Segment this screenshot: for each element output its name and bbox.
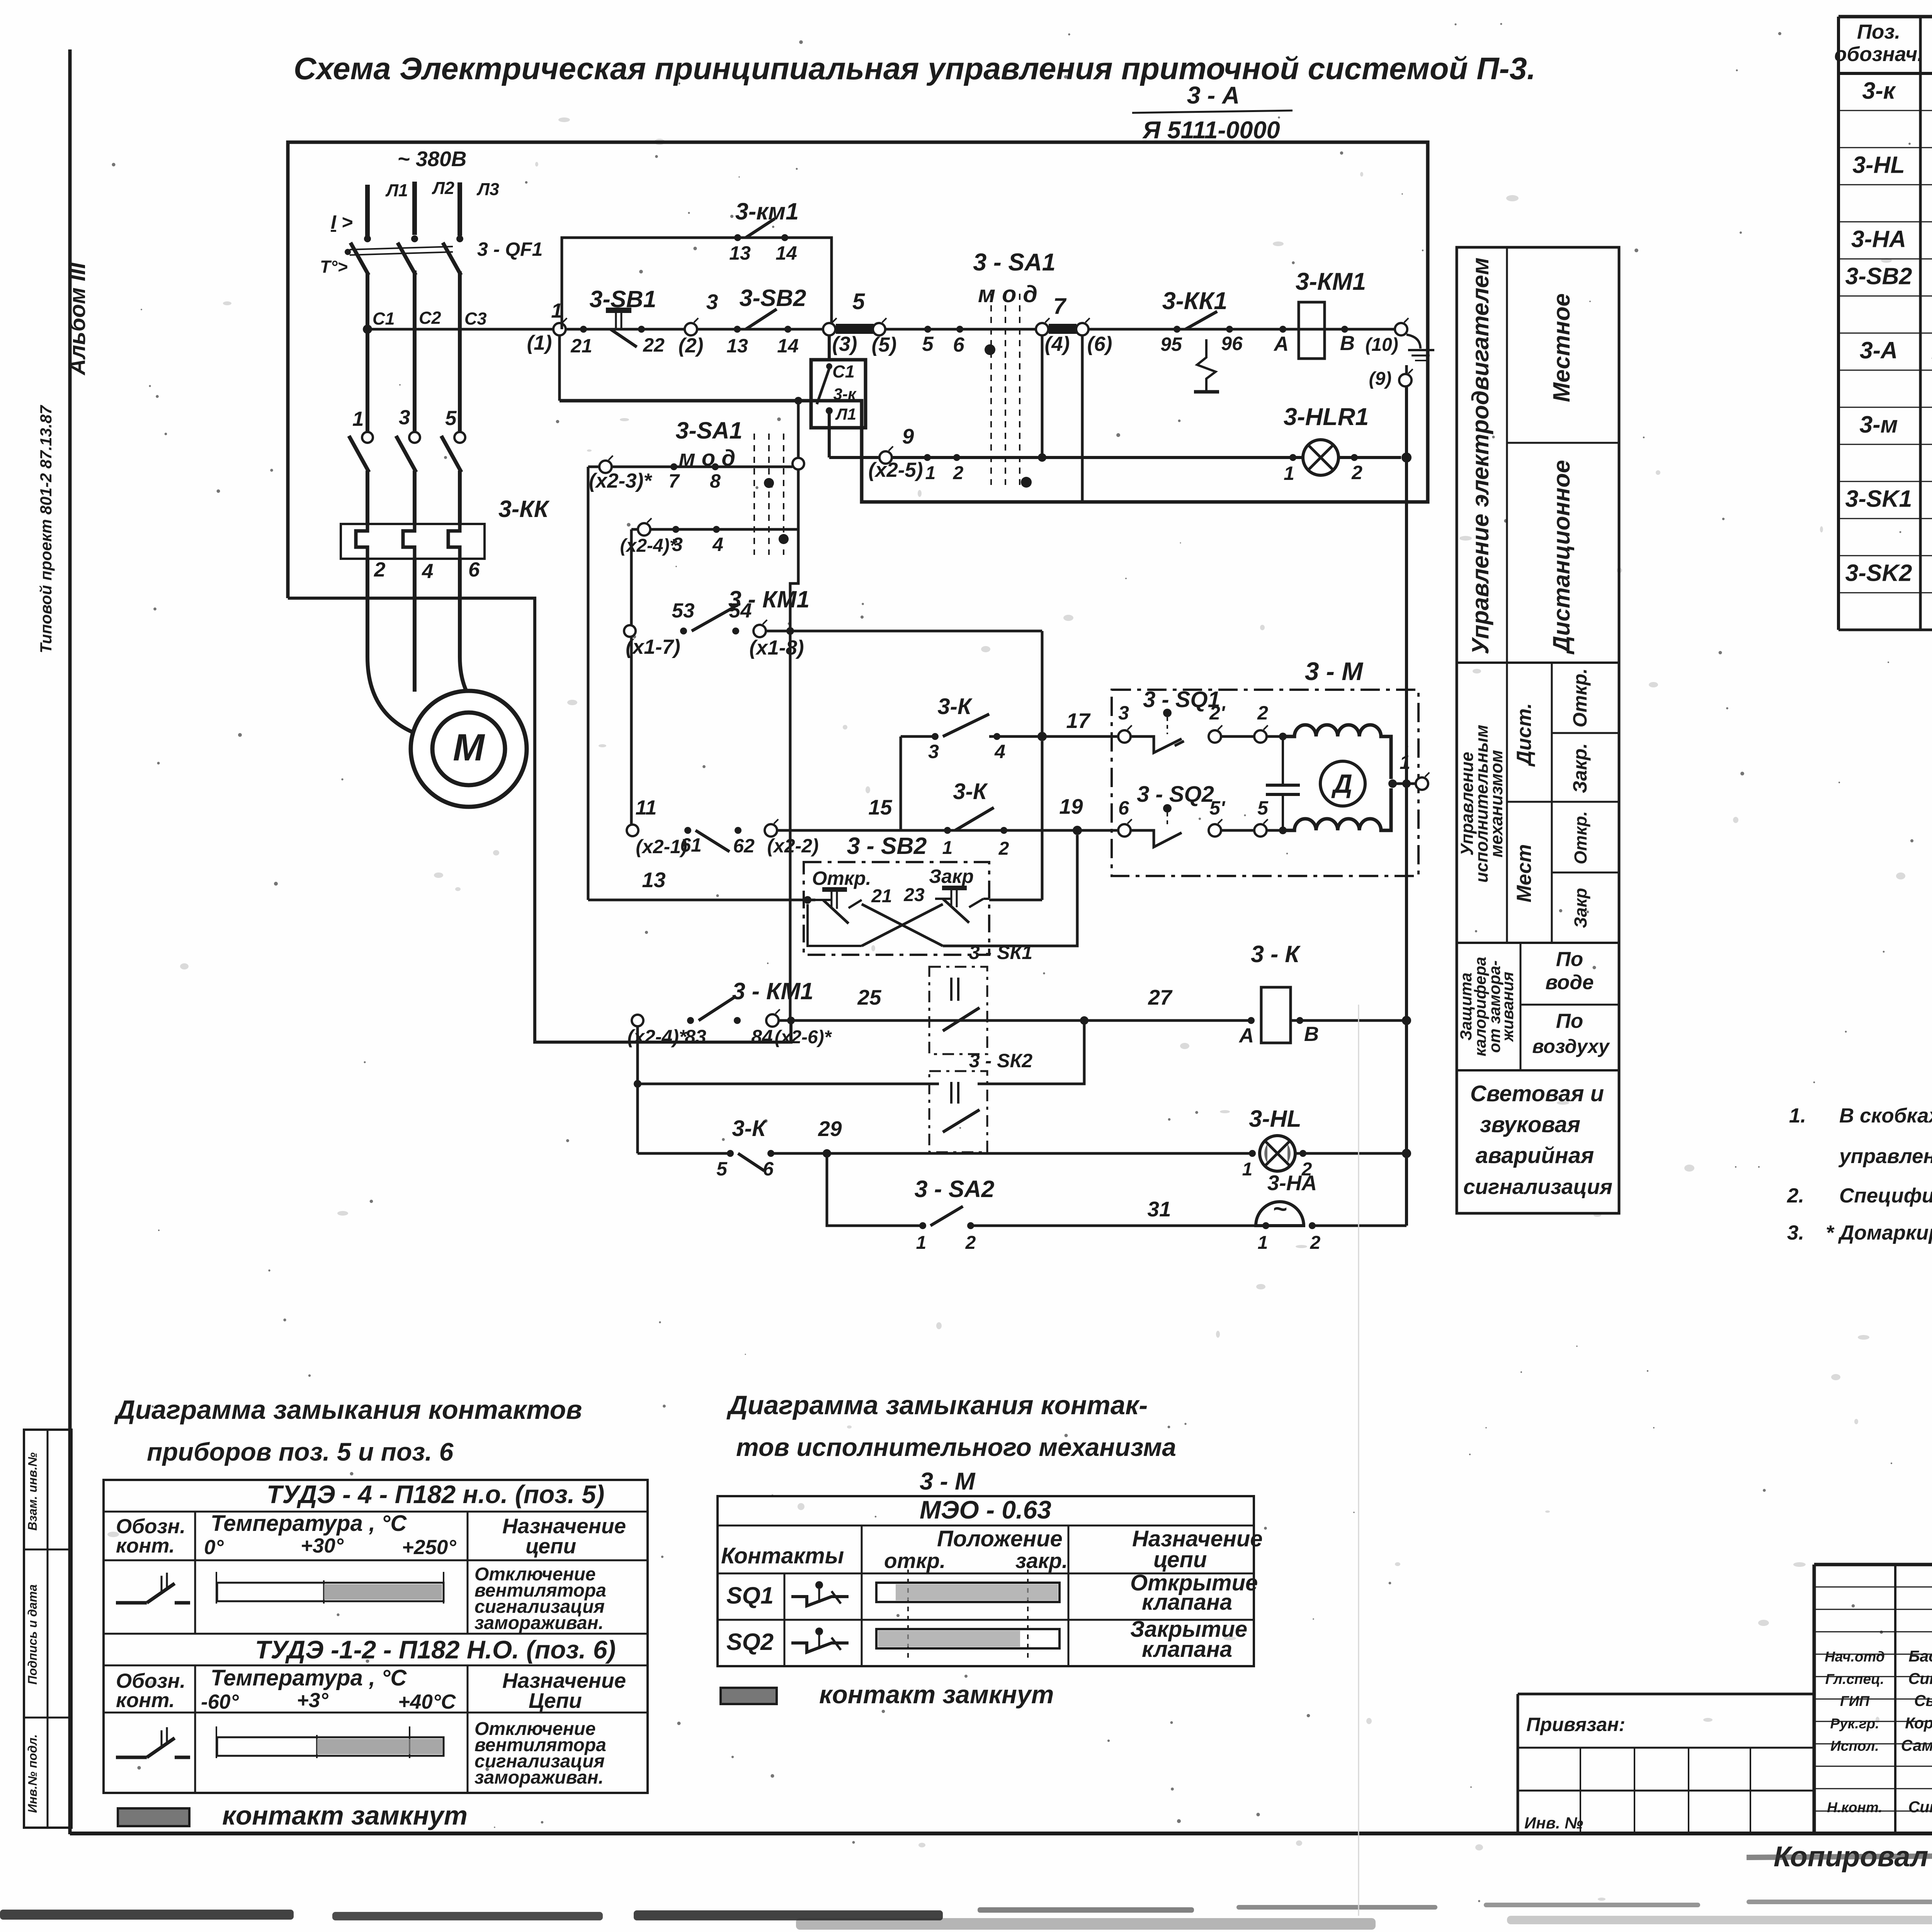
svg-text:3 - М: 3 - М	[1305, 657, 1364, 685]
bottom signal row 29	[638, 1152, 730, 1155]
node (6) terminal	[1076, 323, 1088, 335]
svg-text:Баскаков: Баскаков	[1908, 1647, 1932, 1665]
section2 texts	[1551, 663, 1553, 943]
wires from heaters to motor	[367, 559, 417, 734]
svg-text:5: 5	[922, 333, 934, 355]
svg-text:~: ~	[1273, 1196, 1287, 1223]
svg-text:SQ2: SQ2	[726, 1629, 774, 1655]
svg-text:6: 6	[468, 558, 480, 581]
svg-text:SQ1: SQ1	[726, 1582, 774, 1609]
svg-text:1.: 1.	[1789, 1104, 1806, 1127]
svg-text:сигнализация: сигнализация	[1463, 1175, 1612, 1199]
svg-text:Инв.№ подл.: Инв.№ подл.	[26, 1734, 39, 1813]
svg-text:Световая и: Световая и	[1470, 1081, 1604, 1106]
svg-text:8: 8	[710, 470, 721, 492]
diagram1 bar chart row2	[216, 1726, 217, 1758]
svg-text:механизмом: механизмом	[1486, 750, 1506, 857]
svg-text:Температура , °С: Температура , °С	[211, 1665, 407, 1690]
svg-text:3 - М: 3 - М	[920, 1468, 976, 1495]
contactor 3-k main contacts	[362, 432, 373, 443]
svg-text:(9): (9)	[1369, 369, 1392, 389]
svg-text:3-SB2: 3-SB2	[740, 285, 806, 311]
svg-text:11: 11	[635, 796, 656, 819]
svg-text:3-HL: 3-HL	[1852, 151, 1905, 178]
svg-text:1: 1	[916, 1233, 927, 1253]
phase stub L2	[412, 182, 417, 235]
junction riser on distribution wire	[794, 397, 802, 405]
svg-text:Н.конт.: Н.конт.	[1827, 1799, 1882, 1815]
svg-text:3-НА: 3-НА	[1851, 226, 1906, 252]
wire from node 3 down into aux contact box	[828, 335, 831, 361]
svg-text:Л1: Л1	[385, 180, 408, 200]
line from left bus to SK2	[636, 1026, 639, 1153]
title block outer top line	[1814, 1563, 1932, 1566]
svg-text:Самсонова: Самсонова	[1901, 1736, 1932, 1754]
svg-text:клапана: клапана	[1142, 1590, 1232, 1615]
bold wire segment between (3) and (5)	[836, 324, 874, 334]
terminal circle at rows merge	[793, 458, 804, 469]
bus from row x2-4 down to contact 11	[630, 529, 633, 830]
node (3) terminal	[823, 323, 835, 335]
sheet bottom frame line	[70, 1832, 1932, 1835]
svg-text:Дистанционное: Дистанционное	[1548, 460, 1575, 655]
wire down to junction 17	[1041, 631, 1044, 736]
svg-text:Откр.: Откр.	[1571, 811, 1590, 864]
svg-text:3-HL: 3-HL	[1249, 1105, 1301, 1132]
svg-text:2.: 2.	[1787, 1184, 1804, 1207]
svg-text:(х2-4)*: (х2-4)*	[620, 536, 678, 556]
svg-text:Л3: Л3	[476, 179, 499, 199]
svg-text:М: М	[453, 726, 485, 769]
svg-text:1: 1	[942, 838, 953, 858]
right ground bus	[1405, 386, 1408, 1226]
svg-text:2: 2	[998, 838, 1009, 859]
svg-text:21: 21	[570, 335, 592, 357]
privyazan block	[1518, 1693, 1814, 1696]
svg-text:4: 4	[422, 560, 433, 583]
svg-text:В: В	[1304, 1023, 1319, 1046]
wire line 15	[777, 829, 1124, 832]
svg-text:1: 1	[1242, 1159, 1253, 1180]
svg-text:Спецификация составлена для с: Спецификация составлена для системы П-3	[1839, 1184, 1932, 1207]
junction line27 right bus	[1402, 1016, 1411, 1025]
svg-text:(2): (2)	[679, 334, 704, 357]
junction pin1 with right bus	[1402, 779, 1411, 788]
svg-text:3 - SК2: 3 - SК2	[969, 1050, 1032, 1071]
svg-text:3: 3	[706, 290, 718, 314]
svg-text:13: 13	[726, 335, 748, 357]
svg-text:Температура , °С: Температура , °С	[211, 1511, 407, 1536]
svg-text:3 - QF1: 3 - QF1	[477, 238, 543, 260]
svg-text:7: 7	[668, 470, 680, 492]
sheet left frame line	[68, 49, 72, 1834]
svg-text:(х2-1): (х2-1)	[636, 836, 687, 857]
svg-text:обознач.: обознач.	[1834, 43, 1923, 66]
aux contact box C1 3-k L1	[811, 360, 866, 428]
svg-text:Т°>: Т°>	[320, 257, 348, 277]
svg-text:Закр: Закр	[929, 866, 974, 887]
svg-text:Схема Электрическая принципиа: Схема Электрическая принципиальная управ…	[294, 51, 1536, 86]
svg-text:Подпись и дата: Подпись и дата	[26, 1584, 39, 1684]
svg-text:(х2-2): (х2-2)	[767, 835, 818, 857]
svg-text:(10): (10)	[1365, 335, 1398, 355]
svg-text:3 - А: 3 - А	[1187, 82, 1240, 109]
wire from node 6 down to return wire	[1081, 335, 1084, 502]
svg-text:5: 5	[1257, 797, 1269, 819]
svg-text:откр.: откр.	[884, 1549, 946, 1573]
svg-text:м о д: м о д	[978, 281, 1037, 307]
svg-text:5: 5	[716, 1158, 728, 1180]
svg-text:(1): (1)	[527, 332, 552, 354]
svg-text:17: 17	[1066, 709, 1091, 733]
phase stub L3	[457, 182, 462, 236]
svg-text:3 - SA2: 3 - SA2	[915, 1176, 995, 1202]
svg-text:приборов поз. 5 и п: приборов поз. 5 и поз. 6	[147, 1437, 454, 1466]
signal lamp row wire	[829, 456, 1401, 459]
svg-text:3-SA1: 3-SA1	[676, 417, 743, 444]
title block left edge	[1813, 1565, 1816, 1833]
node (2) terminal	[685, 323, 697, 335]
riser wire from distribution to SA1 rows and below	[790, 401, 798, 1020]
fold crease line	[1358, 1005, 1359, 1916]
phase wires down to main contacts	[366, 273, 369, 434]
svg-text:3-м: 3-м	[1859, 411, 1898, 437]
selector 3-SA1 MOD dashed verticals (lower zone)	[753, 434, 755, 555]
svg-text:3-КК: 3-КК	[498, 496, 550, 522]
svg-text:Дист.: Дист.	[1513, 703, 1536, 767]
diagram1 legend	[118, 1808, 189, 1826]
section3 protection	[1520, 943, 1522, 1070]
svg-text:аварийная: аварийная	[1476, 1143, 1594, 1168]
svg-text:живания: живания	[1498, 972, 1517, 1043]
svg-text:21: 21	[871, 886, 892, 906]
motor D circle	[1320, 761, 1365, 806]
svg-text:61: 61	[680, 834, 702, 856]
pin 1 junction and terminal	[1388, 779, 1397, 788]
svg-text:5': 5'	[1209, 797, 1226, 819]
svg-text:I >: I >	[331, 211, 353, 233]
svg-text:закр.: закр.	[1015, 1549, 1068, 1573]
svg-text:3 - SA1: 3 - SA1	[973, 249, 1056, 276]
svg-text:замораживан.: замораживан.	[474, 1767, 604, 1788]
svg-text:ТУДЭ - 4 - П182 н.о. (п: ТУДЭ - 4 - П182 н.о. (поз. 5)	[267, 1480, 604, 1509]
diagram1 contact symbol row2	[116, 1756, 147, 1759]
bottom signal row 31 with switch 3-SA2	[827, 1153, 923, 1226]
node (4) terminal	[1036, 323, 1048, 335]
junction to capacitor upper	[1267, 735, 1283, 738]
svg-text:96: 96	[1221, 333, 1243, 354]
svg-text:Управление электродвигателем: Управление электродвигателем	[1467, 257, 1493, 654]
svg-text:Л2: Л2	[432, 178, 454, 198]
svg-text:Нач.отд: Нач.отд	[1825, 1649, 1885, 1665]
diagram2 legend	[721, 1688, 777, 1704]
svg-text:воде: воде	[1545, 971, 1594, 994]
svg-text:Закр: Закр	[1571, 888, 1590, 928]
svg-text:Я 5111-0000: Я 5111-0000	[1142, 117, 1280, 144]
svg-text:+30°: +30°	[301, 1534, 344, 1557]
title block column lines	[1894, 1565, 1896, 1833]
svg-text:54: 54	[729, 599, 752, 622]
svg-text:3-К: 3-К	[953, 779, 988, 804]
svg-text:Л1: Л1	[835, 405, 856, 423]
selector position dot lamp row	[1021, 477, 1032, 488]
svg-text:управления Я5111-0000УХЛ4.: управления Я5111-0000УХЛ4.	[1838, 1145, 1932, 1168]
svg-text:2: 2	[953, 463, 964, 483]
svg-text:Контакты: Контакты	[721, 1543, 844, 1568]
selector 3-SA1 contact 5-6 on main line	[924, 326, 931, 333]
svg-text:Взам. инв.№: Взам. инв.№	[26, 1452, 39, 1531]
svg-text:С3: С3	[464, 309, 487, 328]
terminal 9 (x2-5)	[879, 451, 892, 464]
junction SK merge on line 27	[1080, 1016, 1088, 1025]
svg-text:3-А: 3-А	[1860, 337, 1898, 363]
svg-text:3-К: 3-К	[937, 694, 973, 719]
svg-text:С1: С1	[372, 309, 395, 328]
junction riser crossing	[786, 627, 794, 635]
svg-text:9: 9	[902, 424, 914, 448]
svg-text:Д: Д	[1331, 769, 1352, 799]
svg-text:3: 3	[1118, 702, 1129, 724]
thermal relay 3-KK heater elements	[356, 524, 367, 559]
SB2 lower rail	[808, 904, 862, 946]
svg-text:3-км1: 3-км1	[735, 198, 799, 224]
svg-text:14: 14	[777, 335, 799, 357]
svg-text:(х2-6)*: (х2-6)*	[775, 1027, 832, 1048]
cabinet Ya5111-0000 outline (upper portion)	[288, 142, 1428, 598]
svg-text:3.: 3.	[1787, 1221, 1804, 1244]
svg-text:7: 7	[1053, 294, 1067, 319]
svg-text:6: 6	[1118, 797, 1129, 819]
svg-text:В скобках указана заводская м: В скобках указана заводская маркировка ш…	[1839, 1104, 1932, 1127]
svg-text:Положение: Положение	[937, 1526, 1063, 1551]
svg-text:0°: 0°	[204, 1536, 224, 1559]
title block thin rows left part	[1814, 1587, 1932, 1588]
svg-text:Инв. №: Инв. №	[1524, 1814, 1583, 1832]
cross wires inside SB2	[862, 904, 943, 946]
wire L1 branch down to lamp row	[828, 411, 831, 457]
svg-text:1: 1	[1284, 463, 1294, 484]
svg-text:3 - SQ2: 3 - SQ2	[1137, 782, 1214, 807]
svg-text:В: В	[1340, 332, 1355, 355]
SB2 outputs to risers	[943, 835, 1077, 946]
capacitor	[1282, 736, 1284, 785]
motor D lower winding	[1283, 788, 1391, 830]
svg-text:Диаграмма замыкания контак-: Диаграмма замыкания контак-	[726, 1390, 1148, 1420]
svg-text:5: 5	[445, 407, 457, 430]
svg-text:контакт замкнут: контакт замкнут	[222, 1801, 468, 1830]
svg-text:Коршунов: Коршунов	[1905, 1714, 1932, 1732]
svg-text:клапана: клапана	[1142, 1637, 1232, 1662]
breaker mechanical linkage double line	[350, 247, 453, 250]
svg-text:(3): (3)	[832, 333, 857, 355]
wire 17 to SQ1	[1042, 735, 1124, 738]
svg-text:1: 1	[1400, 752, 1410, 773]
junction jog from lower feed	[787, 1017, 795, 1024]
svg-text:3-КК1: 3-КК1	[1162, 287, 1228, 315]
svg-text:2: 2	[1310, 1233, 1321, 1253]
svg-text:Местное: Местное	[1548, 293, 1575, 402]
interlock contact 3-K 3-4	[900, 736, 902, 830]
svg-text:цепи: цепи	[1153, 1547, 1207, 1572]
svg-text:Типовой проект 801-2 87.13.: Типовой проект 801-2 87.13.87	[37, 405, 55, 653]
node (1) terminal	[553, 323, 566, 335]
svg-text:1: 1	[925, 463, 936, 483]
diagram table 1 grid	[104, 1480, 648, 1793]
node (10) terminal and ground	[1395, 323, 1407, 335]
bypass contact 3-KM1 13-14 loop	[562, 238, 832, 329]
svg-text:3-КМ1: 3-КМ1	[1296, 268, 1366, 295]
junction 19	[1073, 826, 1082, 835]
main control line	[367, 328, 1401, 331]
svg-text:А: А	[1238, 1024, 1254, 1047]
svg-text:Мест: Мест	[1513, 844, 1536, 903]
svg-text:Диаграмма замыкания контакто: Диаграмма замыкания контактов	[114, 1395, 582, 1425]
svg-text:+3°: +3°	[297, 1689, 328, 1712]
svg-text:Откр.: Откр.	[812, 867, 871, 889]
svg-text:1: 1	[352, 408, 364, 430]
svg-text:95: 95	[1160, 333, 1182, 355]
svg-text:2: 2	[1351, 462, 1362, 483]
svg-text:22: 22	[643, 334, 665, 356]
svg-text:29: 29	[818, 1117, 842, 1141]
svg-text:25: 25	[857, 985, 882, 1009]
svg-text:6: 6	[953, 333, 964, 356]
node (5) terminal	[873, 323, 885, 335]
section1 divider and split	[1506, 247, 1508, 943]
svg-text:3: 3	[399, 406, 410, 429]
wire from node 1 down to distribution line	[558, 335, 561, 401]
diagram1 contact symbol row1	[116, 1601, 147, 1605]
svg-text:Синицын: Синицын	[1908, 1670, 1932, 1687]
svg-text:3 - КМ1: 3 - КМ1	[732, 978, 813, 1004]
junction of control line tap on phase C1	[363, 325, 372, 334]
svg-text:3: 3	[928, 741, 939, 762]
svg-text:1: 1	[1258, 1233, 1268, 1253]
line 13 entry to SB2	[588, 899, 815, 901]
circuit breaker 3-QF1 blades	[364, 235, 371, 242]
svg-text:-60°: -60°	[201, 1690, 239, 1713]
svg-text:3: 3	[672, 534, 683, 555]
left bus wire from row x2-3 down to line 13	[587, 467, 590, 900]
svg-text:6: 6	[763, 1158, 774, 1180]
svg-text:84: 84	[751, 1026, 773, 1048]
svg-text:62: 62	[733, 835, 755, 857]
wire from node 4 down	[1041, 335, 1044, 457]
svg-text:3 - К: 3 - К	[1251, 941, 1301, 967]
node (9) terminal on right bus	[1405, 365, 1408, 375]
svg-text:3-HLR1: 3-HLR1	[1284, 403, 1369, 430]
svg-text:(х2-5): (х2-5)	[868, 459, 923, 481]
selector position dots lower zone	[764, 478, 774, 488]
diagram table 2 grid	[718, 1496, 1254, 1666]
svg-text:3-НА: 3-НА	[1267, 1171, 1317, 1195]
svg-text:14: 14	[776, 242, 797, 264]
svg-text:звуковая: звуковая	[1480, 1112, 1580, 1137]
junction of node4 wire with lamp row	[1038, 453, 1046, 462]
svg-text:5: 5	[852, 289, 865, 314]
svg-text:13: 13	[729, 242, 751, 264]
junction lamp row with right bus	[1401, 452, 1412, 463]
svg-text:3-к: 3-к	[1862, 77, 1896, 104]
svg-text:тов исполнительного механизм: тов исполнительного механизма	[736, 1433, 1176, 1461]
selector position dot below main line	[985, 344, 995, 355]
svg-text:конт.: конт.	[116, 1534, 175, 1557]
svg-text:2': 2'	[1209, 702, 1226, 724]
svg-text:С2: С2	[419, 308, 441, 328]
svg-text:По: По	[1556, 948, 1583, 971]
junction row29 right bus	[1402, 1149, 1411, 1158]
classification strip table	[1457, 247, 1619, 1213]
svg-text:15: 15	[868, 795, 893, 819]
svg-text:воздуху: воздуху	[1532, 1036, 1610, 1057]
svg-text:ГИП: ГИП	[1840, 1693, 1870, 1709]
svg-text:Привязан:: Привязан:	[1526, 1714, 1625, 1735]
svg-text:ТУДЭ -1-2 - П182 Н.О. (п: ТУДЭ -1-2 - П182 Н.О. (поз. 6)	[255, 1635, 616, 1664]
svg-text:(х2-3)*: (х2-3)*	[589, 469, 652, 492]
svg-text:3 - SВ2: 3 - SВ2	[847, 833, 927, 859]
svg-text:2: 2	[374, 558, 385, 581]
svg-text:Откр.: Откр.	[1569, 668, 1591, 727]
left margin mini stamp table	[24, 1430, 71, 1828]
svg-text:~ 380В: ~ 380В	[398, 147, 467, 171]
component list table grid	[1838, 15, 1932, 19]
svg-text:83: 83	[685, 1026, 706, 1048]
svg-text:27: 27	[1148, 985, 1173, 1009]
bold wire segment between (4) and (6)	[1049, 324, 1077, 334]
svg-text:23: 23	[903, 885, 925, 905]
junction 17	[1037, 732, 1047, 741]
wire line 25	[778, 1019, 1251, 1022]
svg-text:* Домаркировать.: * Домаркировать.	[1826, 1221, 1932, 1244]
motor M circle	[411, 691, 527, 807]
riser from junction 17 down to SB2 area	[1041, 741, 1044, 900]
svg-text:Испол.: Испол.	[1830, 1738, 1879, 1754]
svg-text:2: 2	[1257, 702, 1268, 724]
svg-text:Альбом III: Альбом III	[65, 262, 90, 376]
svg-text:3-SB2: 3-SB2	[1845, 263, 1912, 289]
distribution wire from node 1 (y=1037)	[560, 400, 862, 402]
svg-text:3-К: 3-К	[732, 1116, 767, 1141]
svg-text:(4): (4)	[1045, 333, 1070, 355]
svg-text:3 - SQ1: 3 - SQ1	[1143, 687, 1220, 712]
svg-text:А: А	[1273, 333, 1289, 355]
svg-text:(х1-7): (х1-7)	[626, 636, 680, 658]
svg-text:+250°: +250°	[402, 1536, 456, 1559]
svg-text:м о д: м о д	[679, 446, 735, 471]
selector row (x2-3) 7-8	[588, 466, 793, 468]
svg-text:контакт замкнут: контакт замкнут	[819, 1680, 1054, 1709]
svg-text:3 - SК1: 3 - SК1	[969, 942, 1032, 963]
svg-text:3-SK1: 3-SK1	[1845, 485, 1912, 512]
svg-text:Рук.гр.: Рук.гр.	[1830, 1716, 1879, 1731]
svg-text:2: 2	[965, 1233, 976, 1253]
motor D upper winding	[1283, 725, 1391, 779]
svg-text:Гл.спец.: Гл.спец.	[1825, 1671, 1884, 1687]
svg-text:(х1-8): (х1-8)	[749, 636, 804, 659]
svg-text:Цепи: Цепи	[529, 1689, 582, 1713]
svg-text:+40°С: +40°С	[398, 1690, 456, 1713]
svg-text:Закр.: Закр.	[1569, 743, 1591, 793]
svg-text:Поз.: Поз.	[1857, 20, 1900, 43]
svg-text:13: 13	[642, 868, 665, 892]
phase stub L1	[365, 185, 370, 236]
wire 53-54 row to junction 17	[765, 630, 1042, 633]
svg-text:(6): (6)	[1087, 333, 1112, 355]
cabinet outline lower-left step	[288, 598, 791, 1042]
thermal relay 3-KK heater box	[341, 524, 485, 559]
svg-text:4: 4	[712, 534, 723, 555]
svg-text:По: По	[1556, 1010, 1583, 1032]
